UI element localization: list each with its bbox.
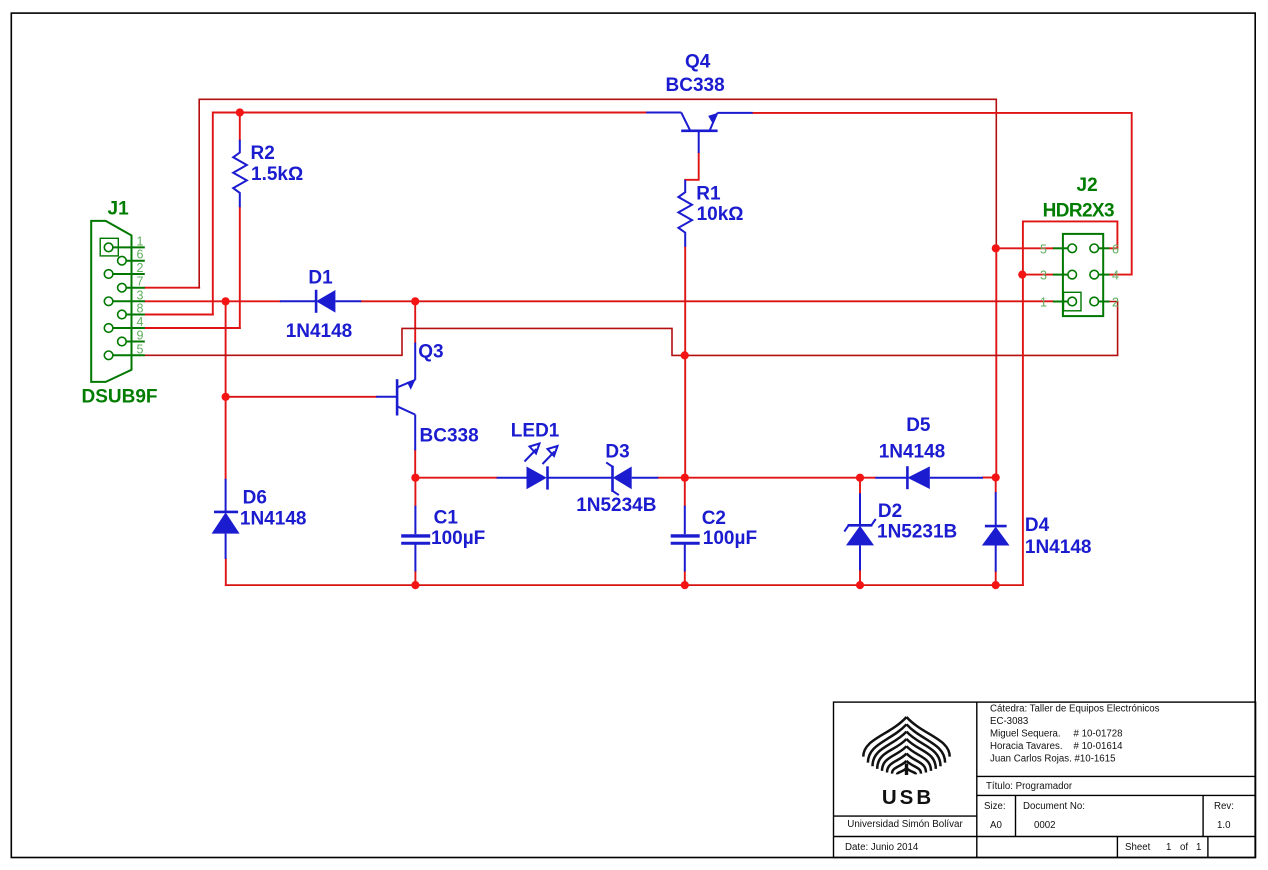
wire Q4 base to R1 jog <box>685 153 699 180</box>
J1 pin 9 <box>118 337 145 346</box>
wire Q3 collector down to C1 node <box>414 450 416 477</box>
connector J2 HDR2X3 body <box>1063 234 1103 316</box>
svg-text:6: 6 <box>1112 242 1119 256</box>
J2 pin 4 <box>1090 270 1110 279</box>
svg-text:4: 4 <box>137 315 144 329</box>
svg-text:Q3: Q3 <box>418 342 443 363</box>
svg-text:of: of <box>1180 842 1188 853</box>
svg-text:1N5231B: 1N5231B <box>877 522 957 543</box>
svg-text:3: 3 <box>137 288 144 302</box>
svg-text:R1: R1 <box>696 184 721 205</box>
wire Q3 base stub <box>226 396 377 398</box>
diode D6 1N4148 <box>214 479 238 559</box>
svg-text:9: 9 <box>137 329 144 343</box>
wire pin5 node to J2 pin2 riser <box>685 302 1118 356</box>
svg-text:1N5234B: 1N5234B <box>576 495 656 516</box>
wire J1 pin8 stub <box>145 314 213 316</box>
wire Q4 emitter to J2 pin4 <box>753 113 1132 275</box>
resistor R2 <box>233 140 247 208</box>
wire J1 pin4 stub <box>145 327 240 329</box>
J2 pin numbers 5 3 1 6 4 2 <box>1040 242 1119 309</box>
svg-text:J2: J2 <box>1077 175 1098 196</box>
svg-text:Universidad Simón Bolívar: Universidad Simón Bolívar <box>847 819 963 830</box>
wire D2 node to D5 cathode <box>860 477 875 479</box>
wire R2 bottom to J1 pin4 <box>239 207 241 328</box>
svg-text:1N4148: 1N4148 <box>879 442 946 463</box>
svg-text:100µF: 100µF <box>703 528 757 549</box>
wire D6 bottom lead to ground bus <box>225 559 227 585</box>
svg-text:LED1: LED1 <box>511 421 560 442</box>
svg-text:BC338: BC338 <box>420 426 479 447</box>
svg-text:1N4148: 1N4148 <box>286 321 353 342</box>
svg-text:Título: Programador: Título: Programador <box>986 781 1073 792</box>
J1 pin 4 <box>104 324 145 333</box>
svg-text:EC-3083: EC-3083 <box>990 716 1028 727</box>
diode D5 1N4148 <box>875 466 983 489</box>
wire J2 pin3 stub <box>1022 274 1053 276</box>
svg-text:D3: D3 <box>605 442 629 463</box>
junction node D2 bottom on ground bus <box>856 581 864 589</box>
wire D6 top lead <box>225 397 227 479</box>
svg-text:A0: A0 <box>990 820 1002 831</box>
svg-text:Q4: Q4 <box>685 51 711 72</box>
J1 pin 3 <box>104 297 145 306</box>
wire D2 top lead <box>859 478 861 494</box>
wire Q3 emitter up to D1 anode node <box>414 301 416 342</box>
svg-text:# 10-01728: # 10-01728 <box>1074 729 1123 740</box>
capacitor C2 <box>671 506 700 572</box>
LED LED1 <box>497 466 613 489</box>
svg-text:D1: D1 <box>308 268 333 289</box>
wire C1 node to LED1 anode <box>415 477 496 479</box>
svg-text:1: 1 <box>1166 842 1171 853</box>
wire D1 anode across to J2 pin1 <box>361 300 1053 302</box>
zener diode D3 1N5234B <box>606 462 658 495</box>
J2 pin 2 <box>1090 297 1110 306</box>
LED1 emission arrows <box>525 444 558 465</box>
wire D4 bottom lead <box>995 572 997 586</box>
svg-text:5: 5 <box>1040 242 1047 256</box>
transistor Q3 BC338 <box>376 343 415 451</box>
svg-text:10kΩ: 10kΩ <box>697 204 744 225</box>
svg-text:DSUB9F: DSUB9F <box>82 387 158 408</box>
svg-text:1.0: 1.0 <box>1217 820 1231 831</box>
svg-text:C2: C2 <box>702 508 726 529</box>
wire net VIN top run: J1.7 up and across to right <box>199 99 996 287</box>
wire D2 bottom lead <box>859 570 861 585</box>
svg-text:7: 7 <box>137 275 144 289</box>
junction node J2 pin5 <box>992 244 1000 252</box>
svg-text:6: 6 <box>137 248 144 262</box>
diode D1 1N4148 <box>280 290 361 313</box>
capacitor C1 <box>401 506 430 572</box>
wire J2 pin6 loop to pin3 vertical <box>1023 221 1118 585</box>
svg-text:HDR2X3: HDR2X3 <box>1043 201 1114 222</box>
wire C1 top lead <box>414 478 416 506</box>
diode D4 1N4148 <box>985 492 1007 571</box>
svg-text:1.5kΩ: 1.5kΩ <box>251 164 303 185</box>
svg-text:BC338: BC338 <box>666 75 725 96</box>
wire D4 top lead <box>995 478 997 493</box>
junction node pin5 net / R1 bottom <box>681 351 689 359</box>
wire C2 node to D2 node <box>685 477 860 479</box>
wire C1 bottom lead <box>414 571 416 585</box>
J1 pin 1 <box>104 243 145 252</box>
svg-text:5: 5 <box>137 342 144 356</box>
svg-text:Rev:: Rev: <box>1214 801 1234 812</box>
svg-text:0002: 0002 <box>1034 820 1056 831</box>
junction node C1 bottom on ground bus <box>411 581 419 589</box>
junction node D1 anode / Q3 emitter <box>411 297 419 305</box>
svg-text:Horacia Tavares.: Horacia Tavares. <box>990 741 1063 752</box>
junction node D1 cathode / J1.3 <box>222 297 230 305</box>
wire R1 bottom vertical to LED row <box>684 247 686 478</box>
junction node D2 top <box>856 474 864 482</box>
wire D3 anode to C2 node <box>658 477 685 479</box>
wire J1.8 up and across to Q4 collector <box>213 113 646 315</box>
USB university logo <box>863 717 949 775</box>
J2 pin 3 <box>1053 270 1077 279</box>
svg-text:D6: D6 <box>243 488 267 509</box>
J1 pin 7 <box>118 283 145 292</box>
svg-text:D4: D4 <box>1025 515 1050 536</box>
resistor R1 <box>678 180 692 247</box>
svg-text:100µF: 100µF <box>431 528 485 549</box>
wire C2 bottom lead <box>684 571 686 585</box>
svg-text:4: 4 <box>1112 269 1119 283</box>
junction node C1 / Q3 collector / LED row <box>411 474 419 482</box>
svg-text:D2: D2 <box>878 501 902 522</box>
J1 pin numbers 1 6 2 7 3 8 4 9 5 <box>137 234 144 356</box>
wire C2 top lead <box>684 478 686 506</box>
svg-text:1: 1 <box>137 234 144 248</box>
junction node Q3 base / D6 <box>222 393 230 401</box>
wire J2 pin5 stub <box>996 247 1053 249</box>
svg-text:J1: J1 <box>108 199 130 220</box>
svg-text:USB: USB <box>882 786 934 809</box>
wire vertical J2.5 down to D5/D4 node <box>995 248 997 477</box>
J1 pin 6 <box>118 256 145 265</box>
junction node C2 bottom on ground bus <box>681 581 689 589</box>
svg-text:R2: R2 <box>251 143 275 164</box>
wire ground bottom bus <box>226 584 1023 586</box>
svg-text:Juan Carlos Rojas. #10-1615: Juan Carlos Rojas. #10-1615 <box>990 754 1115 765</box>
wire node D1 cathode down to Q3 base tee <box>225 301 227 397</box>
svg-text:C1: C1 <box>434 508 459 529</box>
wire R2 top stub <box>239 113 241 140</box>
junction node D5 anode / D4 top <box>992 473 1000 481</box>
J2 pin 5 <box>1053 244 1077 253</box>
zener diode D2 1N5231B <box>844 493 875 570</box>
J2 pin 6 <box>1090 244 1110 253</box>
svg-text:1N4148: 1N4148 <box>1025 537 1092 558</box>
svg-text:Miguel Sequera.: Miguel Sequera. <box>990 729 1061 740</box>
svg-text:Cátedra: Taller de Equipos Ele: Cátedra: Taller de Equipos Electrónicos <box>990 704 1160 715</box>
junction node C2 / D3 row <box>681 474 689 482</box>
junction node R2 top <box>236 108 244 116</box>
svg-text:# 10-01614: # 10-01614 <box>1074 741 1124 752</box>
svg-text:Document No:: Document No: <box>1023 801 1085 812</box>
title block frame <box>834 702 1256 857</box>
svg-text:Sheet: Sheet <box>1125 842 1151 853</box>
svg-text:Date: Junio 2014: Date: Junio 2014 <box>845 842 919 853</box>
svg-text:2: 2 <box>1112 296 1119 310</box>
wire J1 pin5 jog across to J2 pin2 <box>145 328 685 355</box>
svg-text:1: 1 <box>1040 296 1047 310</box>
svg-text:3: 3 <box>1040 269 1047 283</box>
J2 pin 1 <box>1053 297 1077 306</box>
wire J1 pin7 stub <box>145 287 199 289</box>
svg-text:D5: D5 <box>906 415 931 436</box>
J1 pin 5 <box>104 351 145 360</box>
svg-text:2: 2 <box>137 261 144 275</box>
wire D5 anode to D4 node <box>983 477 996 479</box>
transistor Q4 BC338 <box>646 113 752 153</box>
connector J1 DSUB9F body <box>91 221 131 382</box>
svg-text:1N4148: 1N4148 <box>240 509 307 530</box>
wire J1 pin3 to D1 cathode <box>145 300 280 302</box>
svg-text:8: 8 <box>137 302 144 316</box>
svg-text:Size:: Size: <box>984 801 1006 812</box>
J1 pin 8 <box>118 310 145 319</box>
J1 pin 2 <box>104 270 145 279</box>
junction node D4 bottom on ground bus <box>992 581 1000 589</box>
junction node J2 pin3 <box>1018 271 1026 279</box>
svg-text:1: 1 <box>1196 842 1201 853</box>
